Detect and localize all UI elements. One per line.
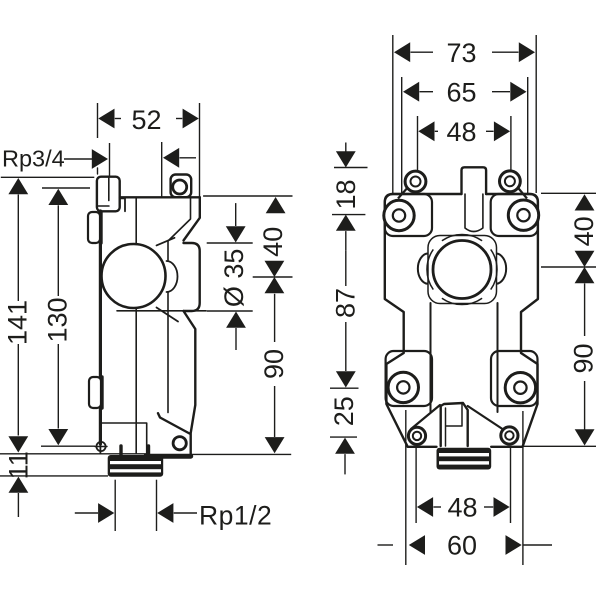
Rp1/2 left tail bbox=[75, 512, 98, 514]
svg-text:87: 87 bbox=[330, 288, 360, 318]
O35 bottom line bbox=[207, 310, 253, 312]
left view: bottom right lug bbox=[158, 413, 190, 433]
dim 25 bottom arrow tail bbox=[344, 454, 346, 474]
right view: top left lug bbox=[405, 171, 426, 192]
dim 90 right line lower bbox=[584, 381, 586, 430]
dim 11 arrow tail bbox=[17, 493, 19, 517]
dim 11 bottom arrow bbox=[9, 477, 29, 493]
left view: dome circle bbox=[102, 244, 166, 308]
dim 130 bottom reference line bbox=[41, 445, 95, 447]
left view: small screw bottom left bbox=[96, 442, 105, 451]
left view: notch right of stub bbox=[120, 198, 125, 211]
dim 48 top right extension line bbox=[510, 116, 512, 170]
dim 60 right tail outside bbox=[523, 544, 552, 546]
right view: boss inner rings bbox=[393, 209, 405, 221]
dim 87 bottom arrow bbox=[336, 371, 356, 387]
dim 52 right arrow bbox=[183, 109, 199, 129]
right view top reference line bbox=[541, 192, 596, 194]
svg-text:18: 18 bbox=[331, 179, 361, 209]
right view bottom reference line bbox=[523, 445, 597, 447]
left view: right edge upper + funnel slant bbox=[184, 197, 200, 240]
svg-text:Rp1/2: Rp1/2 bbox=[199, 501, 272, 531]
dim 87 line lower bbox=[345, 322, 347, 371]
left view: right edge below cylinder bbox=[184, 311, 196, 455]
dim 65 left tail bbox=[420, 91, 434, 93]
dim 48 bottom right extension line bbox=[510, 447, 512, 523]
boss centre lower reference line bbox=[330, 387, 359, 389]
dim 73 left tail bbox=[411, 51, 434, 53]
dim 48 bottom right arrow bbox=[494, 497, 510, 517]
Rp1/2 right extension line bbox=[156, 480, 158, 531]
left view: stub bottom line bbox=[98, 205, 110, 207]
right view: screw boss upper left bbox=[384, 200, 414, 230]
right view: central square plate bbox=[428, 236, 497, 304]
left view: dome bottom diagonal bbox=[157, 308, 179, 322]
left view: upper clip tab bbox=[88, 212, 100, 243]
dim 141 line upper bbox=[17, 195, 19, 302]
svg-text:48: 48 bbox=[447, 493, 477, 523]
dim O35 top arrow tail bbox=[235, 203, 237, 226]
dim 18 top arrow tail bbox=[345, 143, 347, 152]
dim 48 bottom right tail bbox=[484, 506, 493, 508]
dim O35 bottom arrow bbox=[226, 312, 246, 328]
left view: threaded connector Rp1/2 (black with stripes) bbox=[108, 455, 164, 477]
dim 73 right extension line bbox=[535, 35, 537, 193]
left view: foot step lines bbox=[100, 423, 147, 454]
dim 25 bottom arrow bbox=[335, 438, 355, 454]
dim 130 line upper bbox=[57, 205, 59, 296]
dim 141 line lower bbox=[17, 344, 19, 436]
right view: boss pads lower bbox=[386, 351, 432, 406]
svg-text:25: 25 bbox=[329, 396, 359, 426]
svg-text:11: 11 bbox=[4, 451, 34, 479]
dim 90 right bottom arrow bbox=[575, 429, 595, 445]
svg-text:40: 40 bbox=[569, 216, 599, 246]
svg-text:48: 48 bbox=[446, 117, 476, 147]
svg-text:65: 65 bbox=[446, 78, 476, 108]
dim 90 line lower bbox=[274, 386, 276, 437]
dim 90 line upper bbox=[274, 294, 276, 342]
dim 130 line lower bbox=[57, 344, 59, 429]
dim 73 left extension line bbox=[392, 35, 394, 193]
svg-text:90: 90 bbox=[569, 343, 599, 373]
right view: top lug tails bbox=[398, 189, 407, 199]
dim 65 right arrow bbox=[510, 82, 526, 102]
dim 73 right arrow bbox=[519, 42, 535, 62]
right view: top right lug bbox=[500, 171, 521, 192]
dim 40/90 shared arrow upper right bbox=[575, 251, 595, 267]
dim 65 right extension line bbox=[527, 77, 529, 193]
dim 141 top reference line bbox=[1, 176, 95, 178]
right view: bottom left lug bbox=[408, 427, 425, 444]
right view: central bore bbox=[433, 241, 491, 299]
dim O35 top arrow bbox=[226, 226, 246, 242]
wall plane line right bbox=[203, 195, 292, 197]
dim 130 bottom arrow bbox=[48, 429, 68, 445]
Rp3/4 extension line bbox=[109, 143, 111, 177]
left view: inner funnel line bbox=[168, 198, 191, 260]
right view: screw boss lower left bbox=[388, 372, 418, 402]
dim 52 right tail bbox=[176, 118, 182, 120]
dim 60 left arrow bbox=[409, 535, 425, 555]
dim 52 left tail bbox=[115, 118, 121, 120]
left view: lower clip tab bbox=[89, 377, 101, 408]
left view: cartridge cylinder (O35 side face) bbox=[184, 243, 200, 311]
left view: dome-cylinder intersection arc bbox=[167, 261, 178, 292]
right view: outer silhouette right side bbox=[486, 194, 538, 447]
valve centre line bbox=[253, 276, 293, 278]
dim 65 left arrow bbox=[403, 82, 419, 102]
dim 73 right tail bbox=[492, 51, 519, 53]
dim 60 left tail outside bbox=[378, 544, 394, 546]
left view: inner vertical line bbox=[135, 198, 137, 245]
dim 48 top left extension line bbox=[417, 116, 419, 170]
right view: left ear bbox=[418, 254, 428, 284]
dim 18 bottom arrow tail bbox=[345, 231, 347, 251]
Rp1/2 left extension line bbox=[114, 480, 116, 531]
dim 60 left extension line bbox=[405, 410, 407, 565]
right view centre reference line bbox=[541, 266, 596, 268]
dim 90 bottom arrow bbox=[265, 437, 285, 453]
dim 90 top arrow lower bbox=[265, 277, 285, 293]
dim 48 bottom left tail bbox=[433, 506, 441, 508]
dim 40/90 shared arrow upper bbox=[265, 261, 285, 277]
dim 48 top right arrow bbox=[494, 121, 510, 141]
right view: outer silhouette left side bbox=[385, 194, 462, 447]
dim 90 top arrow right bbox=[575, 267, 595, 283]
O35 top line bbox=[207, 242, 253, 244]
dim 48 top left tail bbox=[435, 130, 438, 132]
dim 48 bottom left extension line bbox=[415, 448, 417, 524]
left view: top right screw lug bbox=[171, 175, 192, 198]
svg-text:90: 90 bbox=[259, 349, 289, 379]
right view: bottom right lug bbox=[501, 427, 518, 444]
right view: screw boss lower right bbox=[505, 373, 535, 403]
right view: threaded connector (black with stripes) bbox=[437, 448, 492, 470]
right view: spine edges below centre bbox=[430, 303, 432, 412]
svg-text:40: 40 bbox=[258, 227, 288, 257]
Rp3/4 leader line bbox=[64, 158, 92, 160]
right view: screw boss upper right bbox=[508, 200, 538, 230]
dim 65 right tail bbox=[492, 91, 510, 93]
dim 52 left arrow bbox=[98, 109, 114, 129]
left view: dome top diagonal bbox=[157, 238, 175, 246]
left view: valve body side outline bbox=[99, 211, 102, 444]
dim 18 top arrow bbox=[336, 151, 356, 167]
dim 48 bottom left arrow bbox=[417, 497, 433, 517]
dim 60 right extension line bbox=[522, 411, 524, 565]
dim 11 lower reference line bbox=[0, 475, 108, 477]
left view: top connector stub Rp3/4 bbox=[97, 177, 120, 212]
wall plane arrow bbox=[163, 148, 179, 168]
dim 90 right line upper bbox=[584, 283, 586, 336]
Rp1/2 right arrow bbox=[157, 503, 173, 523]
dim 48 top right tail bbox=[486, 130, 494, 132]
dim 40 left-view top arrow bbox=[266, 197, 286, 213]
right view: boss pads upper bbox=[385, 194, 432, 236]
left view: bold bottom face bbox=[146, 454, 191, 459]
dim 40 right-view top arrow bbox=[575, 194, 595, 210]
dim 52 left extension line bbox=[97, 103, 99, 138]
svg-text:130: 130 bbox=[43, 297, 73, 342]
svg-text:73: 73 bbox=[446, 38, 476, 68]
wall plane extension line bbox=[161, 142, 163, 197]
svg-text:141: 141 bbox=[3, 300, 33, 345]
right view: bottom centre tab bbox=[441, 403, 468, 446]
right view: lug inner holes bbox=[411, 177, 421, 187]
dim 18 bottom arrow / 87 top arrow bbox=[336, 215, 356, 231]
dim 73 left arrow bbox=[394, 42, 410, 62]
bottom face line (141/11 reference) bbox=[0, 453, 146, 455]
Rp1/2 left arrow bbox=[98, 503, 114, 523]
dim 65 left extension line bbox=[401, 77, 403, 193]
boss centre upper reference line bbox=[332, 214, 365, 216]
right view: bottom wing slant lines bbox=[411, 405, 440, 429]
wall plane arrow tail bbox=[180, 157, 197, 159]
left view: body top edge bbox=[120, 196, 200, 198]
dim 141 bottom arrow bbox=[8, 436, 28, 452]
right view: top tab bbox=[462, 167, 487, 194]
svg-text:60: 60 bbox=[447, 531, 477, 561]
dim 130 top arrow bbox=[48, 189, 68, 205]
tab top reference line bbox=[334, 167, 368, 169]
right view: central outer ring (broken at diagonals) bbox=[491, 249, 497, 289]
left view: pipe stub walls above connector bbox=[119, 446, 122, 456]
dim 141 top arrow bbox=[8, 178, 28, 194]
bottom reference line right bbox=[190, 453, 291, 455]
right view: right ear bbox=[497, 254, 507, 284]
left view: cylinder bottom edge line bbox=[117, 310, 206, 312]
dim 130 top reference line bbox=[42, 187, 90, 189]
dim 52 right extension line bbox=[199, 103, 201, 197]
Rp3/4 leader arrow bbox=[92, 149, 108, 169]
Rp1/2 right tail bbox=[174, 512, 197, 514]
svg-text:52: 52 bbox=[131, 105, 161, 135]
svg-text:Rp3/4: Rp3/4 bbox=[2, 146, 65, 172]
bottom lug centre reference line bbox=[330, 436, 357, 438]
dim 60 right arrow bbox=[506, 535, 522, 555]
dim O35 bottom arrow tail bbox=[235, 328, 237, 350]
svg-text:Ø 35: Ø 35 bbox=[219, 249, 249, 308]
dim 87 line upper bbox=[345, 251, 347, 286]
dim 48 top left arrow bbox=[418, 121, 434, 141]
